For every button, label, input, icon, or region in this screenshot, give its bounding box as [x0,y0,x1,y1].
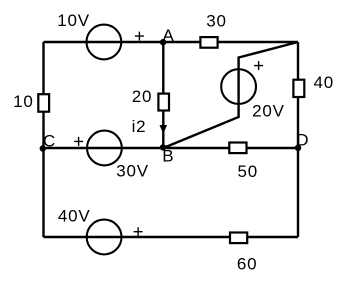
plus sign of 40V source [134,227,143,236]
wire right (D branch) [297,42,299,237]
svg-text:10: 10 [13,92,34,111]
resistor 20 [158,94,169,111]
voltage source 20V [221,69,256,104]
plus sign of 30V source [74,137,83,146]
svg-text:30: 30 [206,12,227,31]
svg-text:D: D [296,131,309,150]
node A junction dot [160,39,166,45]
label 30 [206,12,227,31]
label 50 [238,162,259,181]
svg-text:C: C [43,132,56,151]
svg-text:20: 20 [132,87,153,106]
label node A [163,26,175,45]
svg-text:i2: i2 [132,117,147,136]
wire bottom [44,236,299,238]
svg-text:40V: 40V [58,207,91,226]
voltage source 10V [87,25,122,60]
voltage source 30V [87,131,122,166]
svg-text:A: A [163,26,175,45]
svg-text:50: 50 [238,162,259,181]
svg-text:10V: 10V [57,11,90,30]
wire middle (C-B-D rail) [44,147,299,149]
node D junction dot [295,145,301,151]
label i2 [132,117,147,136]
wire 20V branch (corner to B) [163,42,298,148]
label node C [43,132,56,151]
node C junction dot [40,145,46,151]
label 60 [237,255,258,274]
label 20 [132,87,153,106]
node B junction dot [160,144,166,150]
wire left (C branch) [42,42,44,237]
svg-text:30V: 30V [116,161,149,180]
label node D [296,131,309,150]
wire A to B [162,42,164,148]
resistor 60 [230,233,247,244]
resistor 30 [200,37,217,48]
resistor 50 [229,143,246,154]
label 20V [252,102,285,121]
label node B [162,146,174,165]
label 30V [116,161,149,180]
resistor 40 [293,80,304,97]
plus sign of 10V source [135,32,144,41]
svg-text:20V: 20V [252,102,285,121]
voltage source 40V [87,220,122,255]
label 40 [314,73,335,92]
label 10 [13,92,34,111]
svg-text:40: 40 [314,73,335,92]
label 10V [57,11,90,30]
wire top (node A rail) [44,41,299,43]
label 40V [58,207,91,226]
svg-text:60: 60 [237,255,258,274]
plus sign of 20V source [254,61,263,70]
svg-text:B: B [162,146,174,165]
resistor 10 [38,94,49,112]
current i2 arrowhead [160,125,168,134]
